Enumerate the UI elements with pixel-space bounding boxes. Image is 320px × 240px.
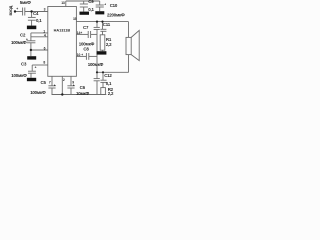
- svg-text:100мкФ: 100мкФ: [30, 90, 46, 95]
- svg-text:C5: C5: [41, 80, 47, 85]
- svg-text:15: 15: [73, 17, 77, 21]
- svg-text:вход: вход: [8, 5, 13, 15]
- svg-text:13: 13: [61, 1, 65, 5]
- svg-text:C11: C11: [103, 22, 111, 27]
- svg-text:C8: C8: [83, 47, 89, 52]
- svg-text:10мкФ: 10мкФ: [76, 91, 90, 96]
- svg-text:0,1: 0,1: [88, 7, 94, 12]
- svg-text:100мкФ: 100мкФ: [11, 40, 27, 45]
- svg-text:НА1311В: НА1311В: [54, 29, 71, 33]
- svg-text:5мкФ: 5мкФ: [20, 0, 31, 5]
- svg-text:C6: C6: [80, 85, 86, 90]
- svg-text:2,2: 2,2: [108, 91, 114, 96]
- svg-text:2200мкФ: 2200мкФ: [107, 12, 125, 17]
- svg-text:10: 10: [77, 53, 81, 57]
- svg-text:0,1: 0,1: [36, 18, 42, 23]
- svg-text:C3: C3: [21, 62, 27, 67]
- svg-text:+: +: [16, 7, 18, 11]
- svg-text:C4: C4: [33, 11, 39, 16]
- svg-text:C7: C7: [83, 25, 89, 30]
- svg-text:C9: C9: [88, 0, 94, 4]
- svg-text:C12: C12: [104, 73, 112, 78]
- svg-text:100мкФ: 100мкФ: [88, 62, 104, 67]
- svg-text:2,2: 2,2: [106, 42, 112, 47]
- svg-text:100мкФ: 100мкФ: [11, 73, 27, 78]
- svg-text:C10: C10: [110, 3, 118, 8]
- svg-text:0,1: 0,1: [106, 81, 112, 86]
